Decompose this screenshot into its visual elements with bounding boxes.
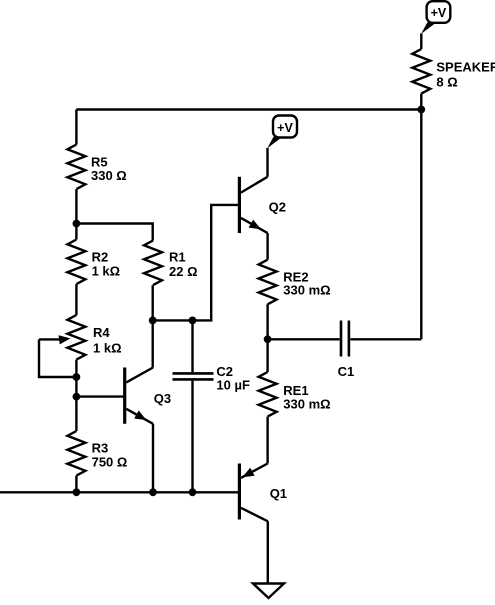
svg-text:10 µF: 10 µF — [216, 377, 250, 392]
svg-text:1 kΩ: 1 kΩ — [92, 264, 121, 279]
svg-text:R5: R5 — [91, 154, 108, 169]
svg-text:330 mΩ: 330 mΩ — [283, 396, 330, 411]
svg-text:750 Ω: 750 Ω — [92, 455, 128, 470]
svg-text:C1: C1 — [338, 364, 355, 379]
svg-text:R4: R4 — [93, 325, 110, 340]
svg-text:330 Ω: 330 Ω — [91, 168, 127, 183]
svg-text:Q3: Q3 — [154, 391, 171, 406]
svg-text:R1: R1 — [169, 249, 186, 264]
svg-text:330 mΩ: 330 mΩ — [283, 283, 330, 298]
svg-text:Q2: Q2 — [269, 199, 286, 214]
svg-text:SPEAKER: SPEAKER — [436, 59, 495, 74]
svg-text:Q1: Q1 — [270, 486, 287, 501]
svg-text:+V: +V — [431, 6, 447, 20]
svg-text:+V: +V — [277, 121, 293, 135]
svg-text:22 Ω: 22 Ω — [169, 264, 198, 279]
svg-text:1 kΩ: 1 kΩ — [93, 340, 122, 355]
svg-text:R3: R3 — [92, 441, 109, 456]
svg-text:8 Ω: 8 Ω — [436, 75, 457, 90]
svg-text:R2: R2 — [92, 250, 109, 265]
